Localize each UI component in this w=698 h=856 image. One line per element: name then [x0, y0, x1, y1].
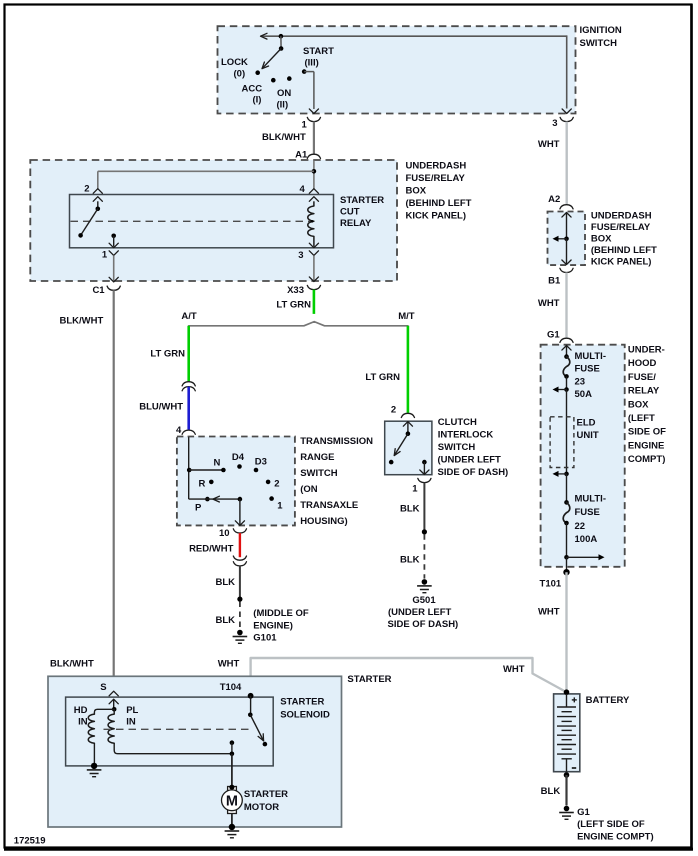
svg-text:UNDERDASH: UNDERDASH	[591, 211, 652, 222]
relay pin 4 terminal	[300, 184, 319, 201]
multi-fuse 23 50A	[563, 351, 606, 400]
svg-text:CLUTCH: CLUTCH	[438, 417, 477, 428]
TRS output wire to pin 10	[239, 499, 241, 524]
svg-text:2: 2	[274, 479, 279, 490]
relay pin 1 terminal	[102, 243, 118, 260]
underhood fuse/relay box labels	[628, 345, 666, 466]
ELD unit labels	[577, 417, 599, 441]
svg-text:BLK: BLK	[400, 504, 420, 515]
svg-text:STARTER: STARTER	[340, 195, 384, 206]
svg-text:T101: T101	[540, 579, 562, 590]
svg-text:INTERLOCK: INTERLOCK	[438, 430, 494, 441]
inline connector RED/WHT / BLK	[233, 556, 246, 566]
document number 172519	[14, 836, 46, 847]
svg-text:SWITCH: SWITCH	[300, 468, 338, 479]
wire LT GRN X33 to split	[276, 290, 314, 314]
svg-text:ACC: ACC	[242, 83, 263, 94]
svg-text:STARTER: STARTER	[244, 789, 288, 800]
svg-text:22: 22	[575, 521, 586, 532]
TRS contact 1	[269, 496, 283, 511]
relay coil	[308, 201, 314, 246]
svg-text:KICK PANEL): KICK PANEL)	[591, 257, 652, 268]
relay pin 3 terminal	[298, 243, 318, 261]
ground G101	[233, 630, 248, 644]
wire WHT B1 to G1	[538, 273, 567, 338]
dashed BLK wire to G101	[215, 602, 239, 630]
svg-text:TRANSAXLE: TRANSAXLE	[300, 500, 358, 511]
wire START contact to pin 1	[304, 72, 314, 109]
svg-text:N: N	[214, 458, 221, 469]
TRS contact D3	[254, 457, 267, 473]
svg-text:LT GRN: LT GRN	[150, 348, 185, 359]
svg-text:HOOD: HOOD	[628, 358, 657, 369]
svg-text:UNIT: UNIT	[577, 430, 599, 441]
wire WHT ignition pin 3 to A2	[538, 122, 567, 205]
HD IN coil	[74, 705, 114, 766]
svg-text:G1: G1	[577, 807, 590, 818]
battery positive terminal node	[564, 689, 570, 695]
starter motor labels	[244, 789, 288, 813]
svg-text:A1: A1	[295, 149, 308, 160]
svg-text:FUSE: FUSE	[575, 507, 600, 518]
connector B1 (cup)	[548, 268, 573, 286]
inline connector LT GRN / BLU-WHT	[182, 382, 195, 391]
ground G501 labels	[388, 595, 459, 630]
relay internal dashed link	[71, 220, 312, 222]
svg-text:BLK: BLK	[400, 555, 420, 566]
svg-text:(UNDER LEFT: (UNDER LEFT	[388, 607, 452, 618]
svg-text:(III): (III)	[305, 57, 319, 68]
wire relay pin 1 to C1	[113, 255, 115, 281]
svg-text:KICK PANEL): KICK PANEL)	[406, 210, 467, 221]
ground G101 labels	[253, 608, 309, 643]
TRS contact D4	[232, 452, 245, 469]
junction with stub arrow (below fuse 23)	[553, 387, 569, 393]
wire junction to T101	[566, 557, 568, 572]
svg-text:ENGINE COMPT): ENGINE COMPT)	[577, 832, 654, 843]
pass-through wire with arrows in right underdash box	[562, 213, 571, 265]
svg-text:A2: A2	[548, 194, 560, 205]
A/T - M/T splice split	[181, 311, 414, 326]
svg-text:(UNDER LEFT: (UNDER LEFT	[438, 455, 502, 466]
svg-text:(LEFT SIDE OF: (LEFT SIDE OF	[577, 819, 645, 830]
wire RED/WHT TRS pin 10 down	[189, 533, 240, 557]
right underdash box labels	[591, 211, 657, 268]
TRS contact 2	[266, 479, 280, 490]
svg-text:IGNITION: IGNITION	[580, 25, 622, 36]
wire A1 to relay pin 4 with junction	[312, 161, 317, 189]
underdash fuse/relay box	[30, 160, 397, 281]
HD coil ground node	[87, 763, 102, 777]
ignition feed wire (top horizontal to pin 3)	[261, 33, 567, 108]
svg-text:MULTI-: MULTI-	[575, 351, 606, 362]
svg-text:(II): (II)	[277, 99, 289, 110]
relay pin 2 terminal	[84, 184, 102, 202]
svg-text:4: 4	[176, 425, 182, 436]
svg-text:3: 3	[298, 250, 303, 261]
ground G1 labels	[577, 807, 654, 843]
svg-text:1: 1	[412, 483, 418, 494]
svg-text:MOTOR: MOTOR	[244, 802, 279, 813]
connector A2 (cup)	[548, 194, 573, 209]
connector C1 (exit arrow + cup)	[92, 277, 120, 296]
svg-text:CUT: CUT	[340, 207, 360, 218]
ignition pin 1 exit (arrow + connector cup)	[302, 109, 321, 131]
svg-text:BOX: BOX	[628, 399, 649, 410]
PL IN coil	[108, 705, 232, 754]
battery body	[554, 694, 580, 772]
starter label	[347, 674, 391, 685]
svg-text:WHT: WHT	[503, 664, 525, 675]
wire starter motor to ground	[231, 814, 233, 828]
connector G1 (cup at underhood box)	[547, 330, 573, 343]
svg-text:WHT: WHT	[538, 607, 560, 618]
svg-text:BLK: BLK	[215, 577, 235, 588]
terminal T101 (dot)	[540, 569, 570, 590]
svg-text:BLK/WHT: BLK/WHT	[262, 132, 306, 143]
svg-text:HOUSING): HOUSING)	[300, 516, 348, 527]
relay switch contact (pin 2 side)	[96, 201, 101, 211]
contact LOCK (0)	[221, 57, 260, 79]
underdash fuse/relay box labels	[406, 160, 472, 221]
wire fuse 23 to junction	[566, 376, 568, 389]
svg-text:D4: D4	[232, 452, 245, 463]
svg-text:MULTI-: MULTI-	[575, 494, 606, 505]
wire fuse 22 to output junction	[566, 523, 568, 557]
TRS contact P with arrow on common	[189, 496, 243, 513]
TRS contact N	[189, 458, 226, 473]
output junction with right stub arrow	[564, 554, 604, 560]
svg-text:BOX: BOX	[406, 185, 427, 196]
svg-text:B1: B1	[548, 276, 561, 287]
svg-text:LT GRN: LT GRN	[365, 372, 400, 383]
junction node on BLK wire	[237, 597, 242, 602]
svg-text:C1: C1	[92, 285, 105, 296]
svg-text:(BEHIND LEFT: (BEHIND LEFT	[406, 198, 472, 209]
svg-text:START: START	[303, 46, 334, 57]
svg-text:ENGINE): ENGINE)	[253, 621, 293, 632]
starter solenoid labels	[280, 697, 330, 721]
ground G501	[417, 579, 432, 593]
wire LT GRN M/T branch	[365, 326, 408, 413]
contact ACC (I)	[242, 78, 276, 106]
svg-text:172519: 172519	[14, 836, 46, 847]
starter cut relay label	[340, 195, 384, 229]
svg-text:STARTER: STARTER	[347, 674, 391, 685]
svg-text:R: R	[199, 479, 206, 490]
svg-text:BLK/WHT: BLK/WHT	[50, 658, 94, 669]
clutch switch output contact to pin 1	[420, 460, 429, 475]
TRS contact R	[199, 479, 214, 490]
solenoid output contacts	[230, 740, 235, 756]
svg-text:RED/WHT: RED/WHT	[189, 544, 234, 555]
ignition switch rotor arm (arrow to LOCK)	[262, 49, 281, 69]
svg-text:(BEHIND LEFT: (BEHIND LEFT	[591, 245, 657, 256]
wire to multi-fuse 22	[566, 474, 568, 503]
svg-text:WHT: WHT	[538, 298, 560, 309]
transmission range switch box	[177, 437, 295, 526]
svg-text:UNDERDASH: UNDERDASH	[406, 160, 467, 171]
solenoid internal dashed link	[104, 728, 251, 730]
svg-text:IN: IN	[126, 717, 136, 728]
svg-text:100A: 100A	[575, 534, 598, 545]
svg-text:FUSE: FUSE	[575, 364, 600, 375]
connector pin 1 exit cup	[412, 478, 431, 494]
svg-text:FUSE/: FUSE/	[628, 372, 656, 383]
svg-text:ELD: ELD	[577, 417, 596, 428]
svg-text:(I): (I)	[253, 95, 262, 106]
svg-text:ENGINE: ENGINE	[628, 440, 664, 451]
terminal S (double chevron)	[100, 682, 118, 704]
relay switch arm (open)	[78, 209, 98, 238]
svg-text:23: 23	[575, 376, 586, 387]
ignition pin 3 exit (arrow + connector cup)	[552, 109, 573, 129]
svg-text:PL: PL	[126, 705, 138, 716]
svg-text:(0): (0)	[234, 68, 246, 79]
svg-text:IN: IN	[78, 717, 88, 728]
transmission range switch labels	[300, 436, 373, 527]
junction node on clutch BLK wire	[422, 529, 427, 534]
svg-text:WHT: WHT	[538, 139, 560, 150]
svg-text:X33: X33	[287, 285, 304, 296]
svg-text:P: P	[195, 503, 202, 514]
svg-text:S: S	[100, 682, 106, 693]
connector pin 10 exit (arrow + cup)	[219, 521, 246, 539]
node A1 branch wire to relay pin 2	[98, 171, 314, 188]
underhood entry arrow	[562, 346, 571, 357]
svg-text:G101: G101	[253, 633, 277, 644]
svg-text:2: 2	[84, 184, 89, 195]
svg-text:A/T: A/T	[181, 311, 197, 322]
wire BLK/WHT C1 down to starter S terminal	[50, 290, 114, 691]
relay pin 1 internal contact and arrow	[111, 234, 116, 247]
svg-text:D3: D3	[255, 457, 267, 468]
svg-text:TRANSMISSION: TRANSMISSION	[300, 436, 373, 447]
wire relay pin 3 to X33	[313, 255, 315, 281]
connector pin 4 at transmission range switch	[176, 425, 195, 443]
svg-text:LOCK: LOCK	[221, 57, 248, 68]
wire WHT battery to starter T104	[218, 658, 567, 697]
starter solenoid box	[66, 697, 274, 766]
wire WHT T101 to battery positive	[538, 572, 567, 692]
svg-text:BLK: BLK	[541, 786, 561, 797]
wire BLU/WHT to transmission range switch pin 4	[139, 387, 188, 430]
wire BLK battery to G1	[541, 775, 567, 806]
starter box	[48, 676, 342, 827]
connector A1 (cup + arrow into underdash box)	[295, 149, 320, 165]
svg-text:LT GRN: LT GRN	[276, 300, 311, 311]
underhood fuse/relay box	[541, 345, 625, 567]
connector pin 2 at clutch interlock switch	[391, 405, 415, 418]
svg-text:BOX: BOX	[591, 234, 612, 245]
svg-text:SWITCH: SWITCH	[580, 38, 618, 49]
svg-text:1: 1	[277, 500, 283, 511]
connector X33 (exit arrow + cup)	[287, 277, 320, 296]
svg-text:(ON: (ON	[300, 484, 318, 495]
svg-text:3: 3	[552, 118, 557, 129]
svg-text:1: 1	[302, 120, 308, 131]
svg-text:G1: G1	[547, 330, 560, 341]
svg-text:SWITCH: SWITCH	[438, 442, 476, 453]
contact ON (II)	[277, 76, 292, 110]
svg-text:M: M	[226, 794, 238, 810]
branch stub arrow in right underdash box	[553, 236, 567, 242]
wire BLK clutch pin 1 down	[400, 483, 424, 532]
svg-text:(LEFT: (LEFT	[628, 413, 655, 424]
svg-text:COMPT): COMPT)	[628, 454, 665, 465]
svg-text:SIDE OF DASH): SIDE OF DASH)	[388, 619, 459, 630]
ignition switch labels	[580, 25, 622, 49]
wire LT GRN A/T branch	[150, 326, 188, 382]
svg-text:BATTERY: BATTERY	[586, 695, 630, 706]
multi-fuse 22 100A	[563, 494, 606, 546]
wire solenoid to starter motor	[231, 754, 233, 787]
clutch interlock switch labels	[438, 417, 509, 478]
svg-text:SOLENOID: SOLENOID	[280, 709, 330, 720]
starter cut relay box	[70, 195, 334, 248]
svg-text:4: 4	[300, 184, 306, 195]
clutch switch arm (open, arrow)	[389, 434, 408, 465]
svg-text:10: 10	[219, 528, 230, 539]
battery negative terminal node	[564, 772, 570, 778]
svg-text:G501: G501	[412, 595, 436, 606]
svg-text:BLK: BLK	[215, 615, 235, 626]
wire BLK/WHT ignition pin 1 to A1	[262, 122, 314, 154]
svg-text:SIDE OF: SIDE OF	[628, 427, 666, 438]
clutch interlock switch box	[385, 421, 432, 475]
svg-text:WHT: WHT	[218, 658, 240, 669]
svg-text:FUSE/RELAY: FUSE/RELAY	[406, 173, 466, 184]
svg-text:(MIDDLE OF: (MIDDLE OF	[253, 608, 309, 619]
ignition switch rotor pivot node	[279, 34, 284, 51]
svg-text:M/T: M/T	[398, 311, 415, 322]
wire BLK to junction	[215, 566, 239, 600]
ELD unit dashed box	[550, 417, 574, 468]
underdash fuse/relay pass-through box (right)	[548, 212, 586, 266]
starter motor M	[222, 785, 243, 814]
TRS common feed wire from pin 4	[187, 437, 192, 499]
svg-text:T104: T104	[220, 682, 242, 693]
solenoid switch pivot from T104	[248, 697, 253, 717]
svg-text:ON: ON	[277, 88, 291, 99]
battery internal plates	[557, 694, 576, 772]
wire through ELD unit	[566, 390, 568, 474]
svg-text:HD: HD	[74, 705, 88, 716]
svg-text:50A: 50A	[575, 389, 593, 400]
junction with stub arrow (below ELD)	[553, 471, 569, 477]
svg-text:UNDER-: UNDER-	[628, 345, 665, 356]
terminal T104 (dot)	[220, 682, 254, 699]
ignition switch box	[218, 26, 576, 113]
ground G1	[559, 806, 574, 820]
battery label + polarity marks	[572, 695, 630, 768]
svg-text:BLU/WHT: BLU/WHT	[139, 401, 183, 412]
svg-text:RELAY: RELAY	[340, 218, 372, 229]
svg-text:BLK/WHT: BLK/WHT	[60, 316, 104, 327]
dashed BLK wire to G501	[400, 534, 424, 578]
svg-text:2: 2	[391, 405, 396, 416]
clutch switch input arrow and contact	[403, 422, 412, 436]
svg-text:RELAY: RELAY	[628, 386, 660, 397]
svg-text:STARTER: STARTER	[280, 697, 324, 708]
contact START (III)	[302, 46, 334, 74]
svg-text:RANGE: RANGE	[300, 452, 334, 463]
svg-text:FUSE/RELAY: FUSE/RELAY	[591, 222, 651, 233]
svg-text:SIDE OF DASH): SIDE OF DASH)	[438, 467, 509, 478]
solenoid feed node from S	[112, 699, 117, 711]
svg-text:1: 1	[102, 250, 108, 261]
starter motor ground node	[225, 824, 240, 838]
solenoid switch arm (arrow, open)	[250, 715, 267, 747]
